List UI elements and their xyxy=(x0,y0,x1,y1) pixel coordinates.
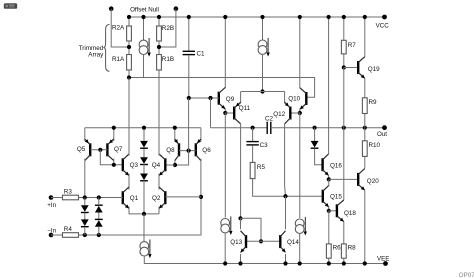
transistor Q4 xyxy=(159,154,165,176)
wire Q4 emitter to Q2 collector xyxy=(158,174,160,190)
svg-text:R10: R10 xyxy=(369,142,381,149)
wire bus to Q8 emitter xyxy=(174,128,176,142)
diode D2 clamp up 2 xyxy=(95,219,103,226)
wire Q8 collector to node xyxy=(174,161,176,165)
junction rail Q19 xyxy=(363,15,367,19)
wire Q14 emitter to VEE xyxy=(285,254,287,264)
resistor R9 xyxy=(362,98,367,114)
wire trim bus to Q10 base xyxy=(129,78,315,98)
transistor Q11 xyxy=(234,102,240,124)
wire I2 to cascode emitters xyxy=(262,54,264,91)
wire R1B down to Q4 collector xyxy=(158,70,160,156)
wire bus to diode chain xyxy=(143,128,145,141)
svg-text:Q20: Q20 xyxy=(367,178,379,185)
junction R1A bus xyxy=(127,75,131,79)
wire Q14 collector up xyxy=(285,196,287,229)
junction +In clamp A xyxy=(83,195,87,199)
resistor R4 xyxy=(63,233,79,238)
node Offset Null pin 1 xyxy=(109,6,114,11)
wire R6 to VEE xyxy=(328,258,330,263)
svg-text:R1B: R1B xyxy=(162,56,174,63)
wire rail to R7 xyxy=(343,17,345,40)
junction -In clamp B xyxy=(97,233,101,237)
svg-text:Q16: Q16 xyxy=(330,162,342,169)
node Out terminal xyxy=(382,125,387,130)
junction R2B/R1B xyxy=(157,45,161,49)
wire rail to Q19 collector xyxy=(364,17,366,57)
transistor Q2 xyxy=(159,187,165,209)
wire chain D1-D2 xyxy=(143,148,145,158)
wire Q11/Q12 emitter bus xyxy=(241,91,285,93)
transistor Q10 xyxy=(300,88,307,110)
wire R2A to R1A xyxy=(128,41,130,55)
wire Q8-Q6 base tie xyxy=(179,150,196,152)
wire left common bus xyxy=(85,127,201,129)
wire rail to C1 xyxy=(188,17,190,51)
resistor R6 xyxy=(326,244,331,258)
junction Q8c/Q4 base xyxy=(173,163,177,167)
diode D1 clamp down 2 xyxy=(81,219,89,226)
transistor Q8 xyxy=(174,139,179,161)
resistor R5 xyxy=(250,162,255,178)
wire Q2 base line xyxy=(165,196,201,198)
svg-text:Out: Out xyxy=(377,131,387,138)
transistor Q18 xyxy=(337,200,344,222)
wire I3 to VEE rail xyxy=(144,256,385,264)
svg-text:Q1: Q1 xyxy=(130,195,139,202)
junction Q5/Q7 bases xyxy=(98,148,102,152)
wire Q4 collector up (drawn with R1B) xyxy=(158,128,160,156)
wire rail to I1 xyxy=(143,17,145,40)
wire bus to Q11 emitter xyxy=(240,92,242,104)
wire Q11 collector down to Q13 xyxy=(240,124,242,219)
svg-text:Q12: Q12 xyxy=(273,111,285,118)
svg-text:C3: C3 xyxy=(260,142,269,149)
wire Q7 emitter drop xyxy=(113,159,115,165)
wire bus to D6 xyxy=(314,128,316,141)
wire C1 column to bases xyxy=(188,98,190,151)
junction Q16e/Q15c xyxy=(327,177,331,181)
brace trimmed array xyxy=(103,25,109,72)
wire R7 to Q19 base xyxy=(343,54,345,68)
wire R8 to VEE xyxy=(343,258,345,263)
svg-text:−In: −In xyxy=(47,228,56,235)
svg-text:R3: R3 xyxy=(64,189,73,196)
wire clamp B mid xyxy=(98,213,100,221)
transistor Q7 xyxy=(107,139,113,161)
svg-text:R5: R5 xyxy=(257,164,266,171)
junction Q8 emitter bus xyxy=(173,126,177,130)
wire Q13 emitter to VEE xyxy=(240,254,242,264)
wire Q3 collector to R1A node xyxy=(128,78,130,128)
wire Q13-Q14 base line xyxy=(246,240,280,242)
wire I4 to VEE xyxy=(224,233,226,264)
junction VEE Q20 xyxy=(363,261,367,265)
current source I5 xyxy=(295,217,307,236)
wire to Q12 base xyxy=(290,112,300,114)
wire Q3 collector up xyxy=(128,128,130,156)
svg-text:R6: R6 xyxy=(333,244,342,251)
diode D4 chain 2 xyxy=(140,157,148,164)
junction +In clamp B xyxy=(97,195,101,199)
wire Q9 base line xyxy=(189,97,219,99)
diode D5 chain 3 xyxy=(140,174,148,181)
wire Q9 base to comp bus xyxy=(210,98,212,128)
capacitor C2 xyxy=(267,122,271,134)
svg-text:Q13: Q13 xyxy=(230,239,242,246)
transistor Q16 xyxy=(323,154,329,176)
transistor Q5 xyxy=(85,139,90,161)
junction VEE Q13 xyxy=(238,261,242,265)
wire R1A to bus xyxy=(128,70,130,78)
capacitor C3 xyxy=(246,142,258,145)
wire Q11 base chain down to I4 xyxy=(224,113,226,218)
wire R5 to Q15 base bus xyxy=(253,179,323,197)
junction Q9 base tap xyxy=(208,96,212,100)
wire Q5-Q7 base tie xyxy=(90,149,107,151)
junction C1/Q9 base xyxy=(187,96,191,100)
wire rail to Q16 collector xyxy=(328,17,330,154)
wire Q5 emitter to +In line xyxy=(84,159,86,198)
wire to Q20 base xyxy=(329,178,358,180)
svg-text:Q5: Q5 xyxy=(77,146,86,153)
node VEE terminal xyxy=(383,261,388,266)
node VCC terminal xyxy=(382,15,387,20)
junction VEE R8 xyxy=(342,261,346,265)
junction rail I2 xyxy=(260,15,264,19)
svg-text:Q10: Q10 xyxy=(288,96,300,103)
wire bus to Q7 collector xyxy=(113,128,115,142)
junction rail R2A xyxy=(127,15,131,19)
svg-text:Q4: Q4 xyxy=(152,162,161,169)
wire output bus xyxy=(271,127,385,129)
junction R9/R10 out xyxy=(363,126,367,130)
svg-text:Q15: Q15 xyxy=(330,194,342,201)
node Offset Null pin 2 xyxy=(174,6,179,11)
transistor Q1 xyxy=(123,187,129,209)
transistor Q14 xyxy=(280,231,285,253)
resistor R7 xyxy=(341,40,346,54)
wire Q19 base line xyxy=(344,67,358,69)
svg-text:R7: R7 xyxy=(348,42,357,49)
svg-text:C1: C1 xyxy=(197,51,206,58)
junction rail Q16 xyxy=(327,15,331,19)
diode D3 chain 1 xyxy=(140,141,148,148)
junction diode chain bus xyxy=(142,126,146,130)
junction Q7 collector bus xyxy=(112,126,116,130)
svg-text:Q3: Q3 xyxy=(130,162,139,169)
svg-text:Q14: Q14 xyxy=(287,239,299,246)
wire -In to R4 xyxy=(51,234,63,236)
svg-text:OP07: OP07 xyxy=(459,272,474,278)
svg-text:R4: R4 xyxy=(64,226,73,233)
wire Q12 collector to node xyxy=(284,186,287,197)
resistor R8 xyxy=(341,244,346,258)
resistor R10 xyxy=(362,141,367,157)
wire D6 to Q16 base xyxy=(315,149,323,165)
svg-text:Q18: Q18 xyxy=(344,210,356,217)
svg-text:R9: R9 xyxy=(369,99,378,106)
wire bus to C3 xyxy=(252,128,254,142)
diode D2 clamp up 1 xyxy=(95,205,103,212)
wire R9 to out bus xyxy=(364,114,366,128)
wire Q10 emitter to Q12 base xyxy=(299,109,301,113)
wire to Q18 base xyxy=(329,210,337,212)
junction Q10e/Q12b xyxy=(298,111,302,115)
current source I3 xyxy=(140,240,152,259)
wire Q9 emitter to Q11 base xyxy=(224,109,226,113)
resistor R2A xyxy=(127,26,132,41)
junction rail Q10 xyxy=(298,15,302,19)
svg-text:R2B: R2B xyxy=(162,25,174,32)
watermark badge xyxy=(4,3,17,9)
transistor Q13 xyxy=(241,231,247,253)
svg-text:Q8: Q8 xyxy=(166,147,175,154)
wire Q1/Q2 emitters join xyxy=(129,207,159,214)
wire offset null 1 to R2A/R1A junction xyxy=(111,9,129,47)
wire chain D2-D3 xyxy=(143,164,145,174)
transistor Q20 xyxy=(358,169,365,191)
current source I2 xyxy=(258,38,270,57)
wire I1 to trim bus xyxy=(143,54,145,77)
svg-text:Q2: Q2 xyxy=(152,195,161,202)
wire R4 to Q2 base node xyxy=(79,199,202,235)
svg-text:Q11: Q11 xyxy=(239,105,251,112)
wire bus corner to Q6 emitter xyxy=(200,128,202,142)
wire rail to Q10 collector xyxy=(299,17,301,88)
junction rail R7 xyxy=(342,15,346,19)
wire to R6 xyxy=(328,211,330,244)
resistor R1A xyxy=(127,55,132,71)
current source I4 xyxy=(221,216,233,235)
wire Q13 collector up xyxy=(240,219,242,230)
resistor R1B xyxy=(157,55,162,71)
svg-text:C2: C2 xyxy=(265,115,274,122)
svg-text:Q19: Q19 xyxy=(368,66,380,73)
wire C1 to Q9 base node xyxy=(188,55,190,98)
junction Q2 base node xyxy=(199,195,203,199)
current source I1 xyxy=(139,38,151,57)
wire clamp A bottom xyxy=(84,227,86,235)
node -In terminal xyxy=(49,233,54,238)
svg-text:R1A: R1A xyxy=(112,56,125,63)
svg-text:R8: R8 xyxy=(348,244,357,251)
wire Q12 collector down xyxy=(284,124,286,186)
svg-text:Q9: Q9 xyxy=(226,96,235,103)
svg-text:R2A: R2A xyxy=(112,25,125,32)
svg-text:+In: +In xyxy=(47,202,56,209)
junction C3 tap xyxy=(251,126,255,130)
junction R2A/R1A xyxy=(127,45,131,49)
wire to Q11 base xyxy=(225,112,234,114)
transistor Q9 xyxy=(219,87,226,109)
transistor Q15 xyxy=(323,185,329,207)
transistor Q12 xyxy=(285,102,291,124)
resistor R3 xyxy=(63,195,79,200)
wire Q6 collector to Q2 base node xyxy=(200,159,202,197)
transistor Q6 xyxy=(196,139,201,161)
junction rail C1 xyxy=(187,15,191,19)
wire Q2 emitter down xyxy=(158,207,160,214)
wire clamp A mid xyxy=(84,213,86,220)
wire clamp A top xyxy=(84,198,86,206)
junction rail Q9 xyxy=(223,15,227,19)
junction Q15e/Q18b xyxy=(327,209,331,213)
svg-text:VCC: VCC xyxy=(376,23,390,30)
transistor Q19 xyxy=(358,57,365,79)
junction -In clamp A xyxy=(83,233,87,237)
resistor R2B xyxy=(157,26,162,41)
junction Q13/Q14 bases xyxy=(259,239,263,243)
svg-text:Offset Null: Offset Null xyxy=(130,6,159,13)
junction Q8/Q6 bases xyxy=(187,149,191,153)
wire clamp B bottom xyxy=(98,227,100,235)
wire bus to Q5 collector xyxy=(84,128,86,142)
junction Q18 collector bus xyxy=(342,126,346,130)
junction I2 emitters bus xyxy=(260,89,264,93)
junction R7/Q19 base xyxy=(342,65,346,69)
wire R7 node down to output bus xyxy=(343,68,345,128)
wire chain to emitters xyxy=(143,181,145,214)
diode D1 clamp down 1 xyxy=(81,205,89,212)
wire bases loop down xyxy=(175,151,189,165)
junction rail I1 xyxy=(141,15,145,19)
junction Q13 collector node xyxy=(238,216,242,220)
wire +In to R3 xyxy=(51,197,63,199)
junction D6 top xyxy=(313,126,317,130)
junction VEE R6 xyxy=(327,261,331,265)
wire rail to I2 xyxy=(262,17,264,40)
wire Q20 emitter to VEE xyxy=(364,190,366,263)
junction Q9e/Q11b xyxy=(223,111,227,115)
junction VEE I5 xyxy=(298,261,302,265)
wire R2B to R1B xyxy=(158,41,160,55)
wire C3 to R5 xyxy=(252,145,254,162)
wire rail to R2B xyxy=(158,17,160,26)
junction VEE I4 xyxy=(223,261,227,265)
wire rail to R2A xyxy=(128,17,130,26)
wire tail to I3 xyxy=(143,214,145,242)
wire clamp B top xyxy=(98,198,100,206)
svg-text:Q7: Q7 xyxy=(114,146,123,153)
wire Q18 collector to output bus xyxy=(343,128,345,200)
wire Q15 emitter down xyxy=(328,207,330,211)
wire to Q4 base xyxy=(165,164,175,166)
wire R3 to Q1 base xyxy=(79,197,123,199)
diode D6 clamp xyxy=(311,141,319,148)
wire Q13 base loop xyxy=(241,218,262,241)
wire Q18 emitter to R8 xyxy=(343,222,345,244)
junction Q12c/Q14c node xyxy=(283,194,287,198)
wire offset null 2 to R2B/R1B junction xyxy=(159,9,176,47)
wire I5 to VEE xyxy=(299,233,301,263)
wire rail to Q9 collector xyxy=(224,17,226,88)
svg-text:VEE: VEE xyxy=(377,255,389,262)
wire Q16 emitter down xyxy=(328,175,330,179)
wire Q12 base chain down to I5 xyxy=(299,113,301,218)
wire Q3 emitter to Q1 collector xyxy=(128,174,130,190)
wire VCC rail xyxy=(129,16,385,18)
wire Q15 collector up xyxy=(328,180,330,186)
capacitor C1 xyxy=(183,51,195,54)
wire out bus to R10 xyxy=(364,128,366,141)
wire comp bus to C2 xyxy=(211,127,268,129)
node +In terminal xyxy=(49,195,54,200)
junction rail R2B xyxy=(157,15,161,19)
junction tail node xyxy=(142,212,146,216)
wire bases loop to Q3 base xyxy=(100,150,123,165)
svg-text:Array: Array xyxy=(88,52,104,59)
junction VEE Q14 xyxy=(283,261,287,265)
wire Q19 emitter to R9 xyxy=(364,78,366,98)
svg-text:Q6: Q6 xyxy=(202,147,211,154)
wire bus to Q12 emitter xyxy=(284,92,286,104)
junction Q7e/Q3 base xyxy=(112,163,116,167)
transistor Q3 xyxy=(123,154,129,176)
wire R10 to Q20 collector xyxy=(364,156,366,168)
